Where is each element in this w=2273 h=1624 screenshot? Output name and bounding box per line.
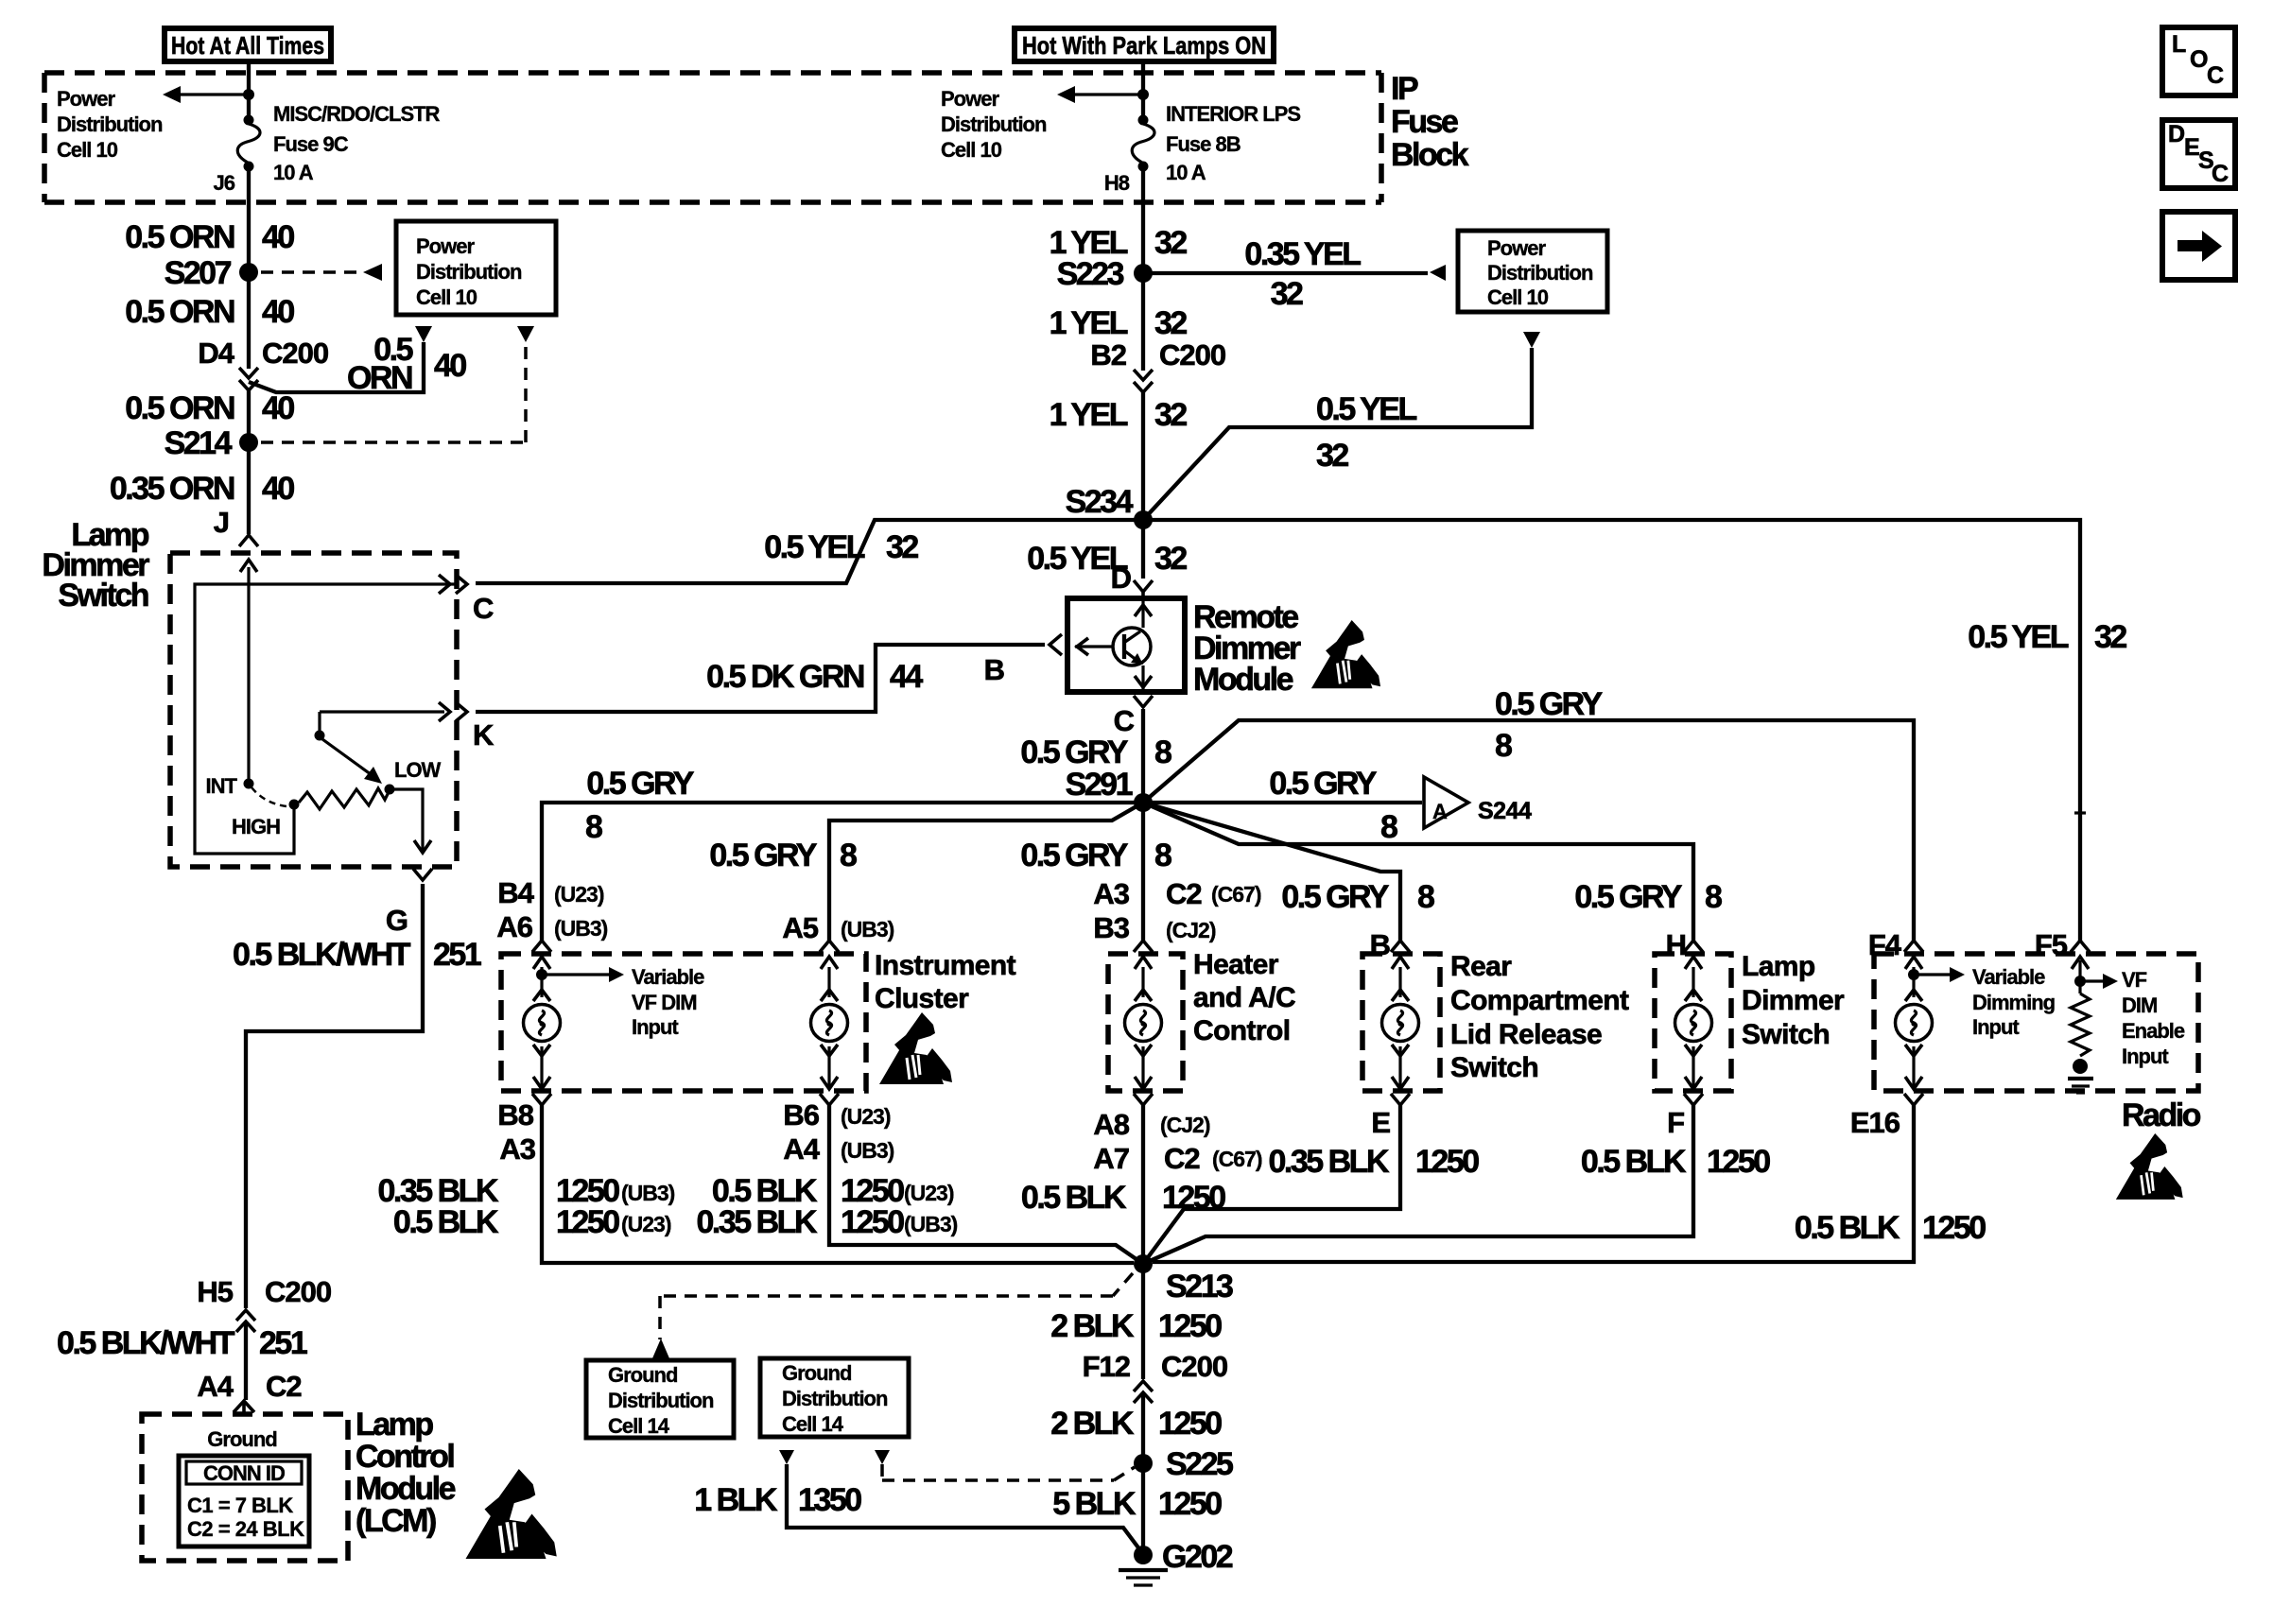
svg-text:A5: A5 bbox=[782, 911, 818, 944]
svg-text:0.5 BLK: 0.5 BLK bbox=[393, 1204, 499, 1240]
labels 0.5 BLK 1250 (U23) / 0.35 BLK 1250 (UB3) bbox=[697, 1173, 958, 1240]
pin F12 connector C200 bbox=[1083, 1350, 1228, 1403]
svg-text:8: 8 bbox=[1154, 734, 1171, 770]
wire 1 BLK 1350 to G202 bbox=[787, 1464, 1140, 1550]
svg-text:J: J bbox=[214, 506, 229, 539]
label Variable Dimming Input bbox=[1972, 965, 2055, 1039]
contact INT bbox=[244, 779, 254, 789]
arrow from ground distribution to S225 dashed bbox=[875, 1450, 890, 1464]
label Power Distribution Cell 10 (middle) bbox=[941, 87, 1047, 162]
svg-text:Cell 14: Cell 14 bbox=[608, 1414, 670, 1438]
svg-text:Ground: Ground bbox=[608, 1363, 677, 1387]
svg-text:1250: 1250 bbox=[841, 1204, 904, 1240]
svg-text:Enable: Enable bbox=[2122, 1019, 2185, 1043]
svg-text:C2: C2 bbox=[1164, 1142, 1200, 1175]
svg-text:0.5 GRY: 0.5 GRY bbox=[709, 838, 817, 873]
lamp in heater control bbox=[1134, 941, 1153, 952]
svg-text:Block: Block bbox=[1391, 137, 1469, 173]
fuse 9C MISC/RDO/CLSTR bbox=[244, 115, 254, 126]
svg-text:0.5 BLK: 0.5 BLK bbox=[1021, 1180, 1127, 1216]
svg-text:32: 32 bbox=[1154, 397, 1187, 433]
svg-text:Instrument: Instrument bbox=[875, 950, 1016, 981]
svg-text:A7: A7 bbox=[1093, 1142, 1129, 1175]
svg-text:D: D bbox=[2168, 121, 2185, 147]
svg-text:Distribution: Distribution bbox=[608, 1389, 714, 1412]
label 0.35 ORN 40 bbox=[110, 471, 295, 507]
svg-text:(UB3): (UB3) bbox=[841, 917, 894, 942]
svg-text:1350: 1350 bbox=[798, 1482, 861, 1518]
label 0.5 YEL 32 (branch) bbox=[1316, 391, 1416, 474]
svg-text:0.5 BLK: 0.5 BLK bbox=[1795, 1210, 1900, 1246]
label 0.5 ORN 40 (row 2) bbox=[125, 294, 294, 330]
svg-text:INT: INT bbox=[206, 774, 238, 798]
ESD symbol at radio bbox=[2116, 1133, 2183, 1200]
label 0.5 BLK/WHT 251 (upper) bbox=[233, 937, 481, 973]
svg-text:Module: Module bbox=[356, 1471, 456, 1507]
svg-text:S244: S244 bbox=[1478, 798, 1532, 824]
pin A5 (UB3) bbox=[782, 911, 894, 944]
svg-text:S225: S225 bbox=[1166, 1446, 1233, 1482]
wire S291 to S244 0.5 GRY 8 bbox=[1143, 801, 1422, 804]
svg-text:Module: Module bbox=[1193, 662, 1293, 698]
wire B2 to S234 1 YEL 32 bbox=[1141, 392, 1145, 520]
svg-text:(UB3): (UB3) bbox=[621, 1181, 675, 1205]
dashed reference S213 to ground distribution bbox=[660, 1273, 1133, 1339]
rear compartment lid release switch dashed box bbox=[1362, 954, 1440, 1091]
label IP Fuse Block bbox=[1391, 71, 1469, 173]
label Lamp Dimmer Switch (right) bbox=[1742, 951, 1845, 1050]
svg-text:1250: 1250 bbox=[556, 1204, 619, 1240]
variable dimming input arrow bbox=[1908, 967, 1965, 982]
label 0.5 ORN 40 (row 1) bbox=[125, 219, 294, 255]
svg-text:0.5 GRY: 0.5 GRY bbox=[1020, 734, 1128, 770]
node S207 bbox=[239, 263, 258, 282]
svg-text:A4: A4 bbox=[783, 1132, 820, 1166]
label 0.5 YEL 32 (to C) bbox=[764, 529, 918, 565]
wire from Hot At All Times into fuse block bbox=[247, 61, 251, 120]
svg-text:B2: B2 bbox=[1090, 338, 1126, 371]
svg-text:Cell 10: Cell 10 bbox=[941, 138, 1002, 162]
svg-text:Input: Input bbox=[2122, 1045, 2169, 1068]
wire K to B 0.5 DK GRN 44 bbox=[476, 645, 1045, 712]
svg-text:F: F bbox=[1667, 1106, 1684, 1139]
svg-text:C: C bbox=[473, 592, 494, 625]
svg-text:A4: A4 bbox=[197, 1370, 234, 1403]
svg-text:32: 32 bbox=[2094, 619, 2126, 655]
svg-text:(U23): (U23) bbox=[554, 882, 604, 907]
header box Hot At All Times bbox=[165, 28, 331, 61]
svg-text:2 BLK: 2 BLK bbox=[1050, 1406, 1135, 1442]
remote dimmer module box bbox=[1067, 598, 1185, 692]
LOC legend box bbox=[2162, 27, 2235, 95]
contact LOW bbox=[385, 785, 395, 795]
wire S291 to H 0.5 GRY 8 bbox=[1143, 803, 1693, 941]
svg-text:40: 40 bbox=[262, 219, 294, 255]
wire S234 to lamp dimmer C 0.5 YEL 32 bbox=[476, 520, 1143, 583]
CONN ID table bbox=[179, 1456, 309, 1546]
svg-text:K: K bbox=[473, 718, 495, 752]
svg-text:0.5 GRY: 0.5 GRY bbox=[1269, 766, 1377, 802]
svg-text:(U23): (U23) bbox=[904, 1181, 954, 1205]
svg-text:VF DIM: VF DIM bbox=[632, 991, 697, 1014]
svg-text:A8: A8 bbox=[1093, 1108, 1129, 1141]
svg-text:CONN ID: CONN ID bbox=[203, 1461, 285, 1485]
wire 0.35 YEL 32 to Power Distribution bbox=[1143, 265, 1446, 281]
svg-text:C200: C200 bbox=[1159, 338, 1225, 371]
svg-text:Distribution: Distribution bbox=[416, 260, 522, 284]
svg-text:H8: H8 bbox=[1104, 171, 1130, 195]
wire C terminal loop inside switch bbox=[195, 584, 457, 854]
wire J6 to S207 0.5 ORN 40 bbox=[247, 166, 251, 272]
wire S234 to D 0.5 YEL 32 bbox=[1141, 520, 1145, 579]
svg-text:0.5 BLK/WHT: 0.5 BLK/WHT bbox=[233, 937, 411, 973]
svg-text:A3: A3 bbox=[1093, 877, 1129, 910]
wire S213 to F12 2 BLK 1250 bbox=[1141, 1264, 1145, 1379]
label 5 BLK 1250 bbox=[1052, 1486, 1222, 1522]
dashed reference S214 to Power Distribution bbox=[261, 344, 526, 442]
svg-text:0.5 YEL: 0.5 YEL bbox=[1316, 391, 1416, 427]
svg-text:INTERIOR LPS: INTERIOR LPS bbox=[1166, 102, 1300, 126]
svg-text:F12: F12 bbox=[1083, 1350, 1130, 1383]
svg-text:(U23): (U23) bbox=[621, 1212, 671, 1236]
svg-text:Lid Release: Lid Release bbox=[1450, 1019, 1602, 1050]
transistor inside module bbox=[1075, 601, 1152, 689]
svg-text:Switch: Switch bbox=[1450, 1052, 1538, 1083]
svg-text:Cell 10: Cell 10 bbox=[1487, 285, 1549, 309]
svg-text:L: L bbox=[2172, 31, 2186, 58]
lamp B4/B8 in instrument cluster bbox=[532, 941, 551, 952]
label 0.5 DK GRN 44 bbox=[706, 659, 923, 695]
wire S207 to D4 0.5 ORN 40 bbox=[247, 272, 251, 369]
svg-text:B: B bbox=[984, 653, 1004, 686]
svg-text:B4: B4 bbox=[497, 876, 534, 909]
wire A8 to S213 bbox=[1141, 1104, 1145, 1264]
svg-text:0.5 GRY: 0.5 GRY bbox=[1495, 686, 1603, 722]
ground in radio bbox=[2068, 1059, 2093, 1093]
svg-text:32: 32 bbox=[1316, 438, 1348, 474]
svg-text:E: E bbox=[1371, 1106, 1390, 1139]
svg-text:0.5 YEL: 0.5 YEL bbox=[1968, 619, 2068, 655]
svg-text:10 A: 10 A bbox=[1166, 161, 1206, 184]
svg-text:S207: S207 bbox=[165, 255, 232, 291]
svg-text:Input: Input bbox=[1972, 1015, 2020, 1039]
svg-text:0.5 ORN: 0.5 ORN bbox=[125, 219, 234, 255]
svg-text:B6: B6 bbox=[783, 1098, 819, 1132]
svg-text:8: 8 bbox=[1380, 809, 1397, 845]
wire E to S213 bbox=[1143, 1104, 1400, 1264]
svg-text:E16: E16 bbox=[1850, 1106, 1900, 1139]
wire S291 to A5 0.5 GRY 8 bbox=[829, 803, 1143, 941]
svg-text:1250: 1250 bbox=[1158, 1406, 1222, 1442]
tick on F5 wire bbox=[2074, 811, 2086, 814]
fuse 8B INTERIOR LPS bbox=[1138, 115, 1149, 126]
lamp A5/B6 in instrument cluster bbox=[820, 941, 839, 952]
svg-text:Power: Power bbox=[1487, 236, 1546, 260]
svg-text:A: A bbox=[1432, 800, 1448, 823]
svg-text:J6: J6 bbox=[214, 171, 235, 195]
svg-text:40: 40 bbox=[262, 294, 294, 330]
label Power Distribution Cell 10 (top left) bbox=[57, 87, 163, 162]
wire B8 to S213 bbox=[542, 1104, 1134, 1263]
svg-text:5 BLK: 5 BLK bbox=[1052, 1486, 1136, 1522]
pin D4 connector C200 bbox=[198, 337, 328, 390]
svg-text:Distribution: Distribution bbox=[782, 1387, 888, 1410]
svg-text:D: D bbox=[1111, 561, 1132, 595]
dashed reference to S225 bbox=[882, 1464, 1135, 1480]
ground G202 bbox=[1119, 1539, 1233, 1585]
box Power Distribution Cell 10 (S207) bbox=[396, 221, 556, 315]
wire E16 to S213 bbox=[1153, 1104, 1914, 1262]
svg-text:(UB3): (UB3) bbox=[904, 1212, 958, 1236]
svg-text:(U23): (U23) bbox=[841, 1104, 891, 1129]
label INTERIOR LPS Fuse 8B 10 A bbox=[1166, 102, 1300, 184]
svg-text:0.5 GRY: 0.5 GRY bbox=[586, 766, 694, 802]
svg-text:(LCM): (LCM) bbox=[356, 1503, 436, 1539]
svg-text:251: 251 bbox=[259, 1325, 307, 1361]
VF DIM enable input branch bbox=[2071, 941, 2118, 993]
svg-text:8: 8 bbox=[1154, 838, 1171, 873]
svg-text:(CJ2): (CJ2) bbox=[1166, 918, 1216, 942]
svg-text:C200: C200 bbox=[1161, 1350, 1227, 1383]
arrow into PD box from S214 dashed bbox=[517, 326, 534, 342]
svg-text:1 YEL: 1 YEL bbox=[1050, 305, 1128, 341]
label 0.35 BLK 1250 (E) bbox=[1269, 1144, 1480, 1180]
arrow A to S244 bbox=[1424, 777, 1532, 828]
switch common arrow from J bbox=[240, 560, 257, 784]
svg-text:Power: Power bbox=[941, 87, 999, 111]
svg-text:Fuse 8B: Fuse 8B bbox=[1166, 132, 1241, 156]
pins A8 A7 C2 (CJ2)(C67) below heater bbox=[1093, 1108, 1261, 1175]
pins A3 B3 C2 (C67)(CJ2) bbox=[1093, 877, 1260, 944]
label Heater and A/C Control bbox=[1193, 949, 1295, 1046]
label 0.35 YEL 32 bbox=[1244, 236, 1361, 312]
instrument cluster dashed box bbox=[501, 954, 866, 1091]
label 0.5 ORN 40 (branch) bbox=[347, 332, 466, 396]
svg-text:Switch: Switch bbox=[58, 578, 147, 613]
svg-text:40: 40 bbox=[262, 471, 294, 507]
svg-text:0.5 ORN: 0.5 ORN bbox=[125, 294, 234, 330]
svg-text:IP: IP bbox=[1391, 71, 1418, 107]
svg-text:1250: 1250 bbox=[1415, 1144, 1479, 1180]
svg-text:(C67): (C67) bbox=[1212, 1147, 1262, 1171]
svg-text:Input: Input bbox=[632, 1015, 679, 1039]
svg-text:A3: A3 bbox=[499, 1132, 535, 1166]
node S225 bbox=[1134, 1454, 1153, 1473]
svg-text:251: 251 bbox=[433, 937, 481, 973]
svg-text:E: E bbox=[2184, 134, 2199, 161]
ESD symbol at instrument cluster bbox=[879, 1012, 952, 1084]
label 0.5 YEL 32 (to F5) bbox=[1968, 619, 2126, 655]
svg-text:S291: S291 bbox=[1066, 767, 1133, 803]
lamp in lamp dimmer switch right bbox=[1684, 941, 1703, 952]
svg-text:1250: 1250 bbox=[1158, 1308, 1222, 1344]
svg-text:0.35 BLK: 0.35 BLK bbox=[1269, 1144, 1390, 1180]
lamp F4/E16 in radio bbox=[1904, 941, 1923, 952]
svg-text:Cluster: Cluster bbox=[875, 983, 969, 1014]
label 1 BLK 1350 bbox=[694, 1482, 861, 1518]
arrow legend box bbox=[2162, 212, 2235, 280]
svg-text:1 BLK: 1 BLK bbox=[694, 1482, 778, 1518]
label 1 YEL 32 (row 2) bbox=[1050, 305, 1188, 341]
svg-text:S214: S214 bbox=[165, 425, 233, 461]
svg-text:0.35 ORN: 0.35 ORN bbox=[110, 471, 234, 507]
svg-text:C: C bbox=[1114, 704, 1135, 737]
connector K of lamp dimmer switch bbox=[320, 702, 495, 752]
pin B2 connector C200 bbox=[1090, 338, 1225, 392]
svg-text:32: 32 bbox=[1154, 541, 1187, 577]
svg-text:and A/C: and A/C bbox=[1193, 982, 1295, 1013]
svg-text:C2: C2 bbox=[1166, 877, 1202, 910]
svg-text:1250: 1250 bbox=[1707, 1144, 1770, 1180]
svg-text:8: 8 bbox=[840, 838, 857, 873]
svg-text:Lamp: Lamp bbox=[356, 1407, 433, 1443]
svg-text:Lamp: Lamp bbox=[1742, 951, 1815, 982]
node junction on left trunk bbox=[243, 89, 254, 100]
ESD symbol at module bbox=[1311, 620, 1380, 688]
label Lamp Dimmer Switch bbox=[42, 517, 149, 613]
svg-text:8: 8 bbox=[1417, 879, 1434, 915]
svg-text:0.5 ORN: 0.5 ORN bbox=[125, 390, 234, 426]
svg-text:C: C bbox=[2212, 161, 2229, 187]
svg-text:C200: C200 bbox=[265, 1275, 331, 1308]
svg-text:(CJ2): (CJ2) bbox=[1160, 1113, 1210, 1137]
svg-text:1 YEL: 1 YEL bbox=[1050, 397, 1128, 433]
svg-text:0.35 BLK: 0.35 BLK bbox=[697, 1204, 818, 1240]
svg-text:32: 32 bbox=[1154, 225, 1187, 261]
svg-text:O: O bbox=[2190, 46, 2208, 73]
svg-text:Rear: Rear bbox=[1450, 951, 1512, 982]
box Power Distribution Cell 10 (right) bbox=[1458, 231, 1607, 312]
variable VF DIM input arrow bbox=[536, 967, 624, 982]
lamp dimmer switch right dashed box bbox=[1655, 954, 1731, 1091]
svg-text:HIGH: HIGH bbox=[232, 815, 280, 838]
pins B8 A3 below instrument cluster bbox=[497, 1098, 535, 1166]
svg-text:Power: Power bbox=[57, 87, 115, 111]
svg-text:LOW: LOW bbox=[394, 758, 442, 782]
label VF DIM Enable Input bbox=[2122, 968, 2185, 1068]
svg-text:40: 40 bbox=[434, 348, 466, 384]
svg-text:Dimming: Dimming bbox=[1972, 991, 2055, 1014]
svg-text:0.5 GRY: 0.5 GRY bbox=[1020, 838, 1128, 873]
svg-text:1250: 1250 bbox=[1158, 1486, 1222, 1522]
contact HIGH bbox=[289, 800, 300, 810]
arrow into PD box (0.5 YEL branch) bbox=[1523, 332, 1540, 348]
svg-text:8: 8 bbox=[1705, 879, 1722, 915]
labels 0.35 BLK 1250 (UB3) / 0.5 BLK 1250 (U23) bbox=[378, 1173, 675, 1240]
svg-text:Fuse 9C: Fuse 9C bbox=[273, 132, 349, 156]
svg-text:C: C bbox=[2207, 62, 2224, 89]
header box Hot With Park Lamps ON bbox=[1015, 28, 1274, 61]
svg-text:Cell 10: Cell 10 bbox=[416, 285, 477, 309]
label 1 YEL 32 (row 1) bbox=[1050, 225, 1188, 261]
label Lamp Control Module (LCM) bbox=[356, 1407, 456, 1539]
svg-text:0.5 GRY: 0.5 GRY bbox=[1281, 879, 1389, 915]
label Variable VF DIM Input bbox=[632, 965, 704, 1039]
node S213 bbox=[1134, 1254, 1153, 1273]
label 0.5 BLK 1250 (F) bbox=[1581, 1144, 1770, 1180]
svg-text:40: 40 bbox=[262, 390, 294, 426]
svg-text:0.5 GRY: 0.5 GRY bbox=[1574, 879, 1682, 915]
svg-text:Cell 14: Cell 14 bbox=[782, 1412, 844, 1436]
svg-text:0.5 BLK/WHT: 0.5 BLK/WHT bbox=[57, 1325, 235, 1361]
svg-text:Ground: Ground bbox=[207, 1427, 276, 1451]
IP fuse block dashed box bbox=[44, 73, 1381, 202]
svg-text:Distribution: Distribution bbox=[1487, 261, 1593, 285]
label Instrument Cluster bbox=[875, 950, 1016, 1014]
dashed wiper position INT to HIGH bbox=[252, 787, 286, 806]
wiper arm with arrow bbox=[315, 712, 383, 784]
svg-text:0.5 YEL: 0.5 YEL bbox=[764, 529, 864, 565]
box Ground Distribution Cell 14 (right) bbox=[760, 1358, 909, 1437]
wire F to S213 bbox=[1143, 1104, 1693, 1264]
label Remote Dimmer Module bbox=[1193, 599, 1301, 698]
wire S225 to G202 5 BLK 1250 bbox=[1141, 1463, 1145, 1555]
svg-text:G202: G202 bbox=[1162, 1539, 1233, 1575]
svg-text:DIM: DIM bbox=[2122, 993, 2157, 1017]
wire 0.5 ORN 40 branch to PD box bbox=[249, 342, 424, 392]
pin H5 connector C200 bbox=[197, 1275, 331, 1332]
pin A4 connector C2 bbox=[197, 1370, 301, 1414]
dashed reference S207 to Power Distribution bbox=[261, 264, 382, 281]
svg-text:Control: Control bbox=[356, 1439, 454, 1475]
wire D4 to S214 0.5 ORN 40 bbox=[247, 390, 251, 442]
svg-text:S223: S223 bbox=[1057, 256, 1124, 292]
label 2 BLK 1250 (upper) bbox=[1050, 1308, 1222, 1344]
label 0.5 ORN 40 (row 3) bbox=[125, 390, 294, 426]
wire S291 to F4 0.5 GRY 8 bbox=[1143, 720, 1914, 941]
svg-text:MISC/RDO/CLSTR: MISC/RDO/CLSTR bbox=[273, 102, 441, 126]
lamp dimmer switch dashed box bbox=[170, 553, 457, 867]
svg-text:Hot With Park Lamps ON: Hot With Park Lamps ON bbox=[1022, 31, 1266, 60]
svg-text:2 BLK: 2 BLK bbox=[1050, 1308, 1135, 1344]
arrow to Power Distribution Cell 10 (middle) bbox=[1057, 86, 1143, 103]
connector G below switch bbox=[386, 869, 432, 937]
wire H5 to A4 0.5 BLK/WHT 251 bbox=[244, 1322, 248, 1400]
pin D of remote dimmer module bbox=[1111, 561, 1153, 598]
ESD symbol at LCM bbox=[466, 1469, 557, 1559]
wire S214 to J 0.35 ORN 40 bbox=[247, 442, 251, 534]
svg-text:44: 44 bbox=[890, 659, 923, 695]
lamp control module dashed box bbox=[142, 1414, 348, 1561]
resistor in radio bbox=[2071, 993, 2090, 1056]
svg-text:Variable: Variable bbox=[1972, 965, 2045, 989]
radio dashed box bbox=[1874, 954, 2198, 1091]
svg-text:(C67): (C67) bbox=[1211, 882, 1261, 907]
svg-text:C2: C2 bbox=[266, 1370, 302, 1403]
svg-text:C2 = 24 BLK: C2 = 24 BLK bbox=[187, 1517, 304, 1541]
pins B4 A6 (U23)(UB3) bbox=[496, 876, 607, 943]
svg-text:8: 8 bbox=[1495, 728, 1512, 764]
svg-text:32: 32 bbox=[1154, 305, 1187, 341]
wire S223 to B2 1 YEL 32 bbox=[1141, 273, 1145, 371]
svg-text:0.5 BLK: 0.5 BLK bbox=[1581, 1144, 1687, 1180]
rheostat resistor HIGH to LOW bbox=[299, 788, 390, 809]
wire H8 to S223 1 YEL 32 bbox=[1141, 166, 1145, 273]
DESC legend box bbox=[2162, 120, 2235, 188]
svg-text:B3: B3 bbox=[1093, 911, 1129, 944]
svg-text:Cell 10: Cell 10 bbox=[57, 138, 118, 162]
svg-text:Switch: Switch bbox=[1742, 1019, 1830, 1050]
arrow into ground distribution box A bbox=[652, 1339, 669, 1358]
label 1 YEL 32 (row 3) bbox=[1050, 397, 1188, 433]
svg-text:C200: C200 bbox=[262, 337, 328, 370]
node S234 bbox=[1134, 510, 1153, 529]
wire S234 to F5 0.5 YEL 32 bbox=[1143, 520, 2080, 941]
svg-text:10 A: 10 A bbox=[273, 161, 314, 184]
svg-text:G: G bbox=[386, 904, 408, 937]
wire S291 left branch 0.5 GRY 8 to instrument cluster B4 bbox=[542, 803, 1143, 941]
wire S291 to B 0.5 GRY 8 bbox=[1143, 803, 1400, 941]
